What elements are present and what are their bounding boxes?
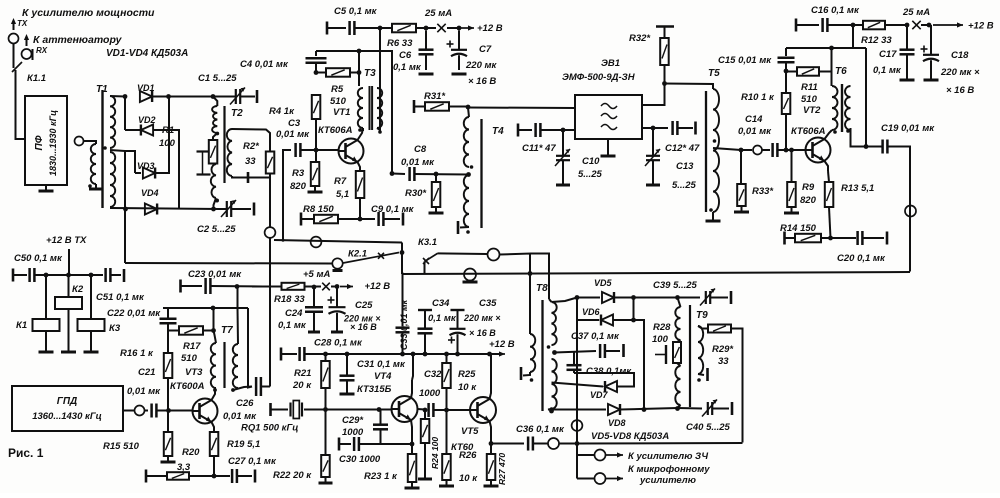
svg-text:20 к: 20 к	[292, 380, 312, 391]
label VT2 type	[791, 126, 826, 137]
wire C9 left	[360, 218, 375, 220]
svg-text:С51 0,1 мк: С51 0,1 мк	[96, 292, 145, 303]
terminal C11 left	[517, 124, 520, 137]
relay coil K3	[78, 319, 105, 331]
capacitor C17	[900, 25, 915, 79]
terminal C5 left	[326, 22, 329, 35]
node K1 stem	[44, 273, 49, 278]
resistor R7	[356, 171, 365, 198]
node rail C35	[455, 352, 460, 357]
wire T6 sec to C19	[851, 128, 879, 147]
node K3 stem	[89, 273, 94, 278]
node rail C34	[423, 352, 428, 357]
ground R9	[784, 207, 799, 213]
wire K3.1 out2	[500, 254, 530, 274]
terminal C16 left	[795, 19, 798, 32]
svg-text:Т9: Т9	[696, 310, 708, 321]
wire R25 top	[446, 354, 448, 363]
capacitor C3	[296, 143, 301, 157]
arrow +12V rail	[492, 351, 505, 356]
svg-text:510: 510	[181, 353, 198, 364]
node R17 right	[211, 328, 216, 333]
wire C8 left	[392, 173, 405, 176]
svg-text:КТ600А: КТ600А	[170, 381, 205, 392]
wire T6 riser	[831, 48, 833, 86]
svg-text:R21: R21	[294, 368, 311, 379]
wire R30 stem	[435, 174, 437, 182]
wire ground bus long	[402, 272, 910, 274]
transformer T5 core	[705, 91, 707, 212]
connector pass 1	[905, 206, 916, 217]
wire K2 contact riser	[401, 243, 403, 253]
capacitor C4	[306, 58, 327, 63]
resistor R14	[795, 234, 821, 243]
node C29 tap	[377, 407, 382, 412]
wire out2 row	[577, 478, 594, 480]
svg-text:С11* 47: С11* 47	[522, 143, 556, 154]
label VD8	[608, 418, 626, 428]
wire C16 junction down	[852, 25, 854, 48]
capacitor beside R1	[197, 152, 211, 175]
label +12V rail	[489, 339, 515, 350]
wire T5 bottom	[712, 212, 714, 215]
wire C30 left	[339, 443, 351, 445]
label C6 value	[393, 62, 422, 73]
label R12	[861, 35, 892, 46]
capacitor C35 electrolytic	[448, 310, 466, 354]
wire PF out to link coil	[84, 141, 97, 144]
terminal C9 right	[402, 213, 405, 226]
wire C50 row	[35, 274, 104, 276]
svg-text:0,01 мк: 0,01 мк	[276, 129, 310, 140]
wire T1 top to VD1 row	[110, 95, 125, 98]
label C14	[745, 114, 763, 125]
svg-text:+12 В: +12 В	[968, 21, 994, 32]
T1 secondary lower	[110, 152, 115, 207]
svg-text:К1: К1	[16, 320, 27, 331]
connector out2	[595, 473, 606, 484]
wire T7 prim top	[214, 331, 217, 344]
svg-text:820: 820	[290, 181, 307, 192]
label C24 value	[278, 320, 307, 331]
label C21b	[138, 367, 155, 378]
capacitor C50	[30, 268, 35, 282]
node R31 T4	[466, 105, 471, 110]
svg-text:С29*: С29*	[342, 415, 364, 426]
svg-text:R27 470: R27 470	[497, 453, 507, 485]
node T3 top	[357, 49, 362, 54]
wire C50 left	[13, 274, 27, 276]
ground K2.1 pivot	[333, 269, 343, 272]
svg-text:С5 0,1 мк: С5 0,1 мк	[334, 6, 378, 17]
label K2.1	[348, 249, 367, 260]
wire audio bus right	[577, 442, 743, 445]
wire VD5 row left	[552, 298, 578, 303]
svg-text:100: 100	[652, 334, 669, 345]
label C18	[951, 50, 969, 61]
node R14 C20	[828, 236, 833, 241]
svg-text:10 к: 10 к	[459, 473, 478, 484]
svg-text:Т2: Т2	[231, 108, 243, 119]
wire C5 left	[327, 27, 346, 29]
wire C3 column	[282, 150, 284, 240]
transformer T2 core	[223, 106, 225, 183]
node T9 sec dot	[697, 378, 701, 382]
T2 primary lower	[211, 164, 216, 198]
wire C16 left	[796, 24, 819, 26]
node C18 top	[927, 23, 932, 28]
label C50	[14, 253, 63, 264]
node C1 junction	[211, 94, 216, 99]
wire T3 sec bottom to C5 column	[377, 28, 380, 130]
wire C40 lead	[678, 407, 703, 410]
svg-text:Рис. 1: Рис. 1	[8, 446, 44, 460]
svg-text:25 мА: 25 мА	[902, 7, 930, 18]
node T3 prim dot	[358, 128, 362, 132]
svg-text:R13 5,1: R13 5,1	[841, 183, 874, 194]
filter EMF box	[575, 95, 642, 139]
label K2	[72, 284, 84, 295]
svg-text:С21: С21	[138, 367, 155, 378]
capacitor C12	[673, 121, 678, 135]
label R21 value	[292, 380, 312, 391]
wire C36 right	[533, 443, 548, 445]
resistor R9	[787, 182, 796, 207]
label C18 value2	[946, 85, 974, 96]
node K2.1 contact	[400, 250, 405, 255]
terminal C20 right	[886, 232, 889, 245]
terminal C27 right	[254, 470, 257, 483]
svg-text:К аттенюатору: К аттенюатору	[33, 34, 123, 46]
wire K3.1 to T8 top	[530, 254, 549, 300]
label R29	[712, 344, 734, 355]
label K1.1	[27, 73, 46, 84]
node VD56	[575, 295, 580, 300]
label C18 value	[940, 67, 980, 78]
connector GPD out	[135, 406, 145, 416]
node R1 bus	[211, 207, 216, 212]
label R1 value	[159, 138, 176, 149]
node T4 tap	[466, 172, 471, 177]
label PF	[34, 135, 45, 150]
svg-text:1000: 1000	[419, 388, 441, 399]
transistor VT3	[192, 399, 218, 424]
svg-text:С38 0,1мк: С38 0,1мк	[586, 366, 632, 377]
diode VD4	[145, 204, 157, 215]
label C33 rot	[399, 299, 409, 350]
label to power amplifier	[22, 7, 155, 19]
wire C28 left	[281, 353, 297, 355]
svg-text:VT2: VT2	[803, 105, 821, 116]
resistor R25	[442, 363, 451, 388]
svg-text:R18 33: R18 33	[274, 294, 305, 305]
wire VT4 emitter	[411, 420, 412, 444]
svg-text:усилителю: усилителю	[639, 475, 696, 486]
wire K3.1 stub	[424, 262, 426, 275]
wire R21 top	[325, 354, 327, 361]
node T2 prim bottom dot	[215, 199, 219, 203]
wire R17 to top row	[213, 308, 215, 331]
resistor R11	[797, 67, 819, 76]
svg-text:К2.1: К2.1	[348, 249, 367, 260]
connector K2.1 pivot	[332, 258, 342, 268]
node C19 row	[864, 144, 869, 149]
resistor R22	[321, 455, 330, 477]
svg-text:R3: R3	[292, 168, 305, 179]
svg-text:Т7: Т7	[221, 325, 233, 336]
label GPD	[57, 396, 78, 407]
svg-text:220 мк ×: 220 мк ×	[940, 67, 980, 78]
wire VD6 lead	[577, 319, 599, 321]
label R8	[303, 204, 334, 215]
svg-text:R17: R17	[183, 341, 201, 352]
wire output column	[576, 298, 578, 479]
label R11 value	[801, 94, 818, 105]
T7 primary	[211, 343, 216, 388]
node T9 bottom	[675, 406, 680, 411]
svg-text:К3: К3	[109, 323, 121, 334]
node C36 tap	[489, 441, 494, 446]
node T5 tap	[713, 139, 717, 143]
diode VD5	[602, 292, 614, 303]
capacitor C37	[600, 344, 605, 358]
wire K3 to ground	[90, 331, 92, 351]
label R28 value	[652, 334, 669, 345]
label R1	[162, 125, 174, 136]
ground C10	[556, 184, 570, 187]
resistor R27	[487, 454, 496, 480]
label C38	[586, 366, 632, 377]
capacitor beside R28	[655, 345, 666, 364]
label R5	[331, 84, 344, 95]
wire RQ1 to base	[326, 409, 392, 411]
node T3 sec dot	[378, 130, 382, 134]
wire C9 right	[384, 218, 401, 220]
capacitor C30	[354, 437, 359, 451]
svg-text:К усилителю ЗЧ: К усилителю ЗЧ	[628, 451, 708, 462]
svg-text:R12 33: R12 33	[861, 35, 892, 46]
wire VT3 emitter	[212, 422, 215, 432]
label C13	[676, 161, 694, 172]
label VD1-VD4 type	[106, 48, 188, 59]
terminal R8 left	[300, 213, 303, 226]
label C8 value	[401, 157, 435, 168]
node T9 top	[675, 295, 680, 300]
ground R23	[405, 482, 420, 488]
node C6	[424, 26, 429, 31]
svg-text:R32*: R32*	[629, 33, 651, 44]
svg-text:К микрофонному: К микрофонному	[628, 464, 710, 475]
capacitor C15	[778, 58, 795, 63]
wire R17 right	[203, 330, 213, 332]
label C29 value	[342, 427, 364, 438]
T8 primary lower	[552, 359, 557, 409]
capacitor C21	[152, 404, 157, 418]
label C3 value	[276, 129, 310, 140]
label figure	[8, 446, 44, 460]
wire C23 right	[211, 285, 264, 288]
terminal T9 bottom	[706, 368, 709, 381]
svg-text:VD5: VD5	[594, 278, 613, 288]
node T8 phase1	[547, 345, 551, 349]
wire C23 left	[181, 285, 203, 287]
label T5	[708, 68, 720, 79]
wire shielded column	[269, 238, 271, 387]
svg-text:С6: С6	[399, 50, 412, 61]
svg-text:R31*: R31*	[424, 91, 446, 102]
wire VD5 right	[614, 297, 634, 299]
terminal C28 left	[280, 348, 283, 361]
node R33 top	[739, 148, 744, 153]
wire R29 right down	[731, 329, 743, 443]
svg-text:С12* 47: С12* 47	[665, 143, 700, 154]
wire VD6 right	[613, 320, 644, 410]
bandpass filter PF box	[25, 96, 67, 185]
svg-text:220 мк ×: 220 мк ×	[463, 313, 501, 323]
node base VT3	[166, 408, 171, 413]
node C10	[561, 128, 566, 133]
terminal R31 left	[413, 100, 416, 113]
wire K2 to ground	[68, 309, 70, 351]
label C10	[582, 156, 600, 167]
node C23 col bottom	[211, 306, 216, 311]
ground C31	[340, 393, 355, 396]
node R32 T5	[662, 81, 667, 86]
resistor R18	[282, 283, 305, 290]
node T7 prim dot	[213, 388, 217, 392]
svg-text:820: 820	[800, 195, 817, 206]
wire C14 right	[778, 149, 787, 151]
svg-text:С35: С35	[479, 298, 497, 309]
svg-text:С37 0,1 мк: С37 0,1 мк	[571, 331, 620, 342]
resistor R4	[312, 95, 321, 119]
node T6 sec dot	[846, 129, 850, 133]
svg-text:С15 0,01 мк: С15 0,01 мк	[718, 55, 772, 66]
connector C14 in	[753, 146, 762, 155]
wire R25 bottom	[446, 388, 448, 410]
svg-text:1830...1930 кГц: 1830...1930 кГц	[48, 110, 58, 176]
wire shield row	[274, 240, 402, 243]
wire R6 left	[380, 27, 392, 29]
wire C21 right	[157, 410, 193, 412]
wire VD8 row	[548, 408, 606, 411]
svg-text:R24 100: R24 100	[430, 437, 440, 469]
label R7	[334, 176, 347, 187]
svg-text:1360...1430 кГц: 1360...1430 кГц	[32, 411, 102, 422]
wire C23 junction down	[237, 287, 239, 309]
wire R18 right	[305, 286, 315, 288]
label VT2 ref	[803, 105, 821, 116]
resistor R5	[326, 68, 350, 77]
svg-text:VT5: VT5	[461, 426, 479, 437]
svg-text:R28: R28	[653, 322, 671, 333]
svg-text:К1.1: К1.1	[27, 73, 46, 84]
resistor R13	[825, 182, 834, 207]
label C17	[879, 49, 897, 60]
wire K1 to ground	[45, 331, 47, 351]
svg-text:510: 510	[801, 94, 818, 105]
svg-text:510: 510	[330, 96, 347, 107]
svg-text:5...25: 5...25	[578, 169, 602, 180]
wire conn to C14	[762, 149, 770, 151]
label T4	[492, 126, 504, 137]
svg-text:С16 0,1 мк: С16 0,1 мк	[811, 5, 860, 16]
wire y51 to C8 column	[359, 51, 392, 173]
node rail VT5	[487, 352, 492, 357]
wire VD3 row	[135, 172, 141, 174]
wire VD56 column	[576, 298, 578, 321]
wire VD5 lead	[577, 297, 600, 299]
label R33	[752, 186, 774, 197]
label C36	[516, 424, 565, 435]
wire C32 right	[434, 409, 471, 411]
wire to EMF left pin	[468, 107, 575, 110]
capacitor C31	[340, 354, 355, 393]
svg-text:+12 В: +12 В	[477, 23, 503, 34]
resistor R16	[164, 353, 173, 378]
resistor R3	[311, 162, 320, 186]
wire R5 row left	[316, 72, 326, 74]
svg-text:С14: С14	[745, 114, 763, 125]
wire R14 right	[821, 237, 831, 239]
wire VD7 right	[574, 373, 634, 387]
svg-text:R11: R11	[801, 82, 818, 93]
wire K3.1 out	[438, 252, 488, 255]
svg-text:VD4: VD4	[141, 188, 159, 198]
connector K3.1 pass	[488, 249, 500, 261]
label R17 value	[181, 353, 198, 364]
label C37	[571, 331, 620, 342]
terminal T2 sec bottom	[247, 172, 250, 183]
label C19	[881, 123, 935, 134]
terminal C51 right	[123, 269, 126, 282]
wire C17 column	[865, 48, 867, 147]
supply bar R32	[656, 27, 674, 38]
wire C11 right	[541, 129, 576, 131]
label K3.1	[418, 237, 437, 248]
label +12V TX	[46, 235, 87, 246]
wire rail +12V	[305, 353, 502, 355]
wire C1 junction to T2	[213, 97, 217, 107]
svg-text:R9: R9	[802, 182, 815, 193]
wire C26 row	[233, 387, 252, 391]
wire VT4 collector	[411, 380, 412, 398]
wire C19 to bus riser	[906, 147, 910, 272]
capacitor C16	[823, 18, 828, 32]
terminal T8 link	[520, 367, 523, 380]
ground under PF box	[39, 185, 54, 191]
wire C30 right	[359, 443, 412, 445]
connector antenna RX	[22, 49, 32, 59]
ground bus	[463, 281, 478, 284]
T6 secondary	[845, 86, 851, 130]
terminal C39 right	[730, 291, 733, 304]
wire R10 bottom	[785, 114, 787, 150]
label C2 value	[197, 224, 236, 235]
ground C13	[646, 184, 660, 187]
wire R23 top	[411, 444, 413, 454]
wire R17 left	[168, 330, 179, 332]
label C40	[686, 422, 731, 433]
ground K2	[61, 351, 76, 354]
ground R33	[734, 206, 749, 212]
resistor R6	[392, 24, 416, 33]
wire C33 bottom	[402, 333, 404, 354]
svg-text:С19 0,01 мк: С19 0,01 мк	[881, 123, 935, 134]
svg-text:С34: С34	[432, 298, 450, 309]
relay coil K1	[33, 319, 60, 331]
wire out1 row	[577, 454, 594, 456]
